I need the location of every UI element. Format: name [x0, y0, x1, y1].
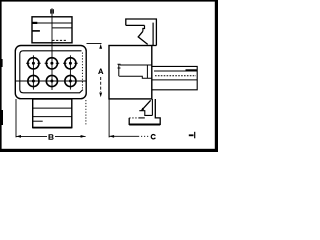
front view: vertical centerline — [51, 8, 53, 90]
dimension B left arrow — [16, 135, 21, 138]
pin column centerline left — [32, 55, 34, 89]
foot bar top dotted — [129, 117, 139, 119]
rear section short line — [33, 120, 43, 122]
dimension C left arrow — [109, 135, 114, 138]
wire barrel block — [152, 66, 197, 89]
centerline top double dash — [51, 9, 54, 13]
foot steps — [139, 111, 152, 116]
dimension C label — [151, 135, 155, 139]
pin 2 (top-center) — [45, 58, 60, 69]
tab hidden dashed line — [52, 39, 67, 41]
rear section line 2 — [33, 116, 72, 118]
tab internal line 1 — [32, 22, 72, 24]
side view: latch notch steps — [143, 25, 145, 31]
hidden edge left / B extension line — [15, 99, 17, 137]
pin row centerline (bottom row) — [15, 80, 86, 82]
foot leg inner edge — [151, 99, 153, 115]
frame border — [0, 0, 218, 152]
pin 3 (top-right) — [63, 58, 78, 69]
cavity bottom line — [119, 76, 152, 78]
rear section line 1 — [33, 107, 72, 109]
dimension A dashed line — [100, 77, 102, 92]
rear section bottom thick edge — [33, 127, 72, 129]
side view: bottom foot outline — [129, 99, 160, 124]
front view: top latch tab — [32, 17, 72, 43]
side view: latch outline — [126, 19, 157, 46]
side view: latch leg inner edge — [152, 23, 154, 46]
foot diagonal arrow blob — [141, 108, 144, 111]
dimension A label — [98, 69, 103, 75]
dimension C right extension tick — [194, 132, 196, 139]
cavity divider — [146, 65, 148, 78]
pin 6 (bottom-right) — [65, 75, 76, 86]
dimension C extension line left — [108, 99, 110, 137]
dimension B line right segment — [55, 135, 86, 137]
body inner face right edge (dotted) — [81, 53, 83, 90]
pin column centerline right — [69, 55, 71, 89]
wire lower line — [152, 79, 197, 81]
dimension C dotted segment — [138, 135, 149, 137]
tab internal line 2 (right half) — [52, 27, 72, 29]
dimension A extension line — [87, 43, 102, 45]
wire crimp dashed line — [155, 75, 196, 77]
contact clip bracket — [118, 64, 121, 76]
front view: rear section — [33, 99, 72, 128]
dimension A up arrow — [99, 44, 102, 49]
wire barrel thick segment — [186, 69, 198, 71]
wire barrel line — [154, 70, 197, 72]
front view: body inner face — [20, 51, 83, 93]
body top edge under latch leg — [152, 45, 157, 47]
foot bar bottom thick edge — [129, 124, 160, 126]
cavity top line — [120, 64, 152, 66]
tab left stub — [32, 30, 40, 32]
dimension B label — [49, 134, 54, 140]
tab internal line 1 thick left end — [32, 22, 37, 24]
dimension C line solid segment — [109, 135, 138, 137]
foot diagonal strut — [142, 100, 151, 110]
front view: body outer shell — [15, 46, 86, 99]
side view: latch bar bottom — [126, 24, 145, 26]
side view: latch spring arm — [138, 31, 148, 44]
side view: housing body — [109, 46, 152, 99]
foot bar top solid — [139, 117, 145, 119]
dimension B line left segment — [16, 135, 47, 137]
dimension A down arrow — [99, 93, 102, 98]
hidden edge right (dotted) — [85, 100, 87, 125]
dimension B right arrow — [81, 135, 86, 138]
pin 4 (bottom-left) — [28, 75, 39, 86]
pin 1 (top-left) — [26, 58, 41, 69]
pin 5 (bottom-center) — [46, 75, 57, 86]
dimension C right arrow — [189, 134, 194, 136]
